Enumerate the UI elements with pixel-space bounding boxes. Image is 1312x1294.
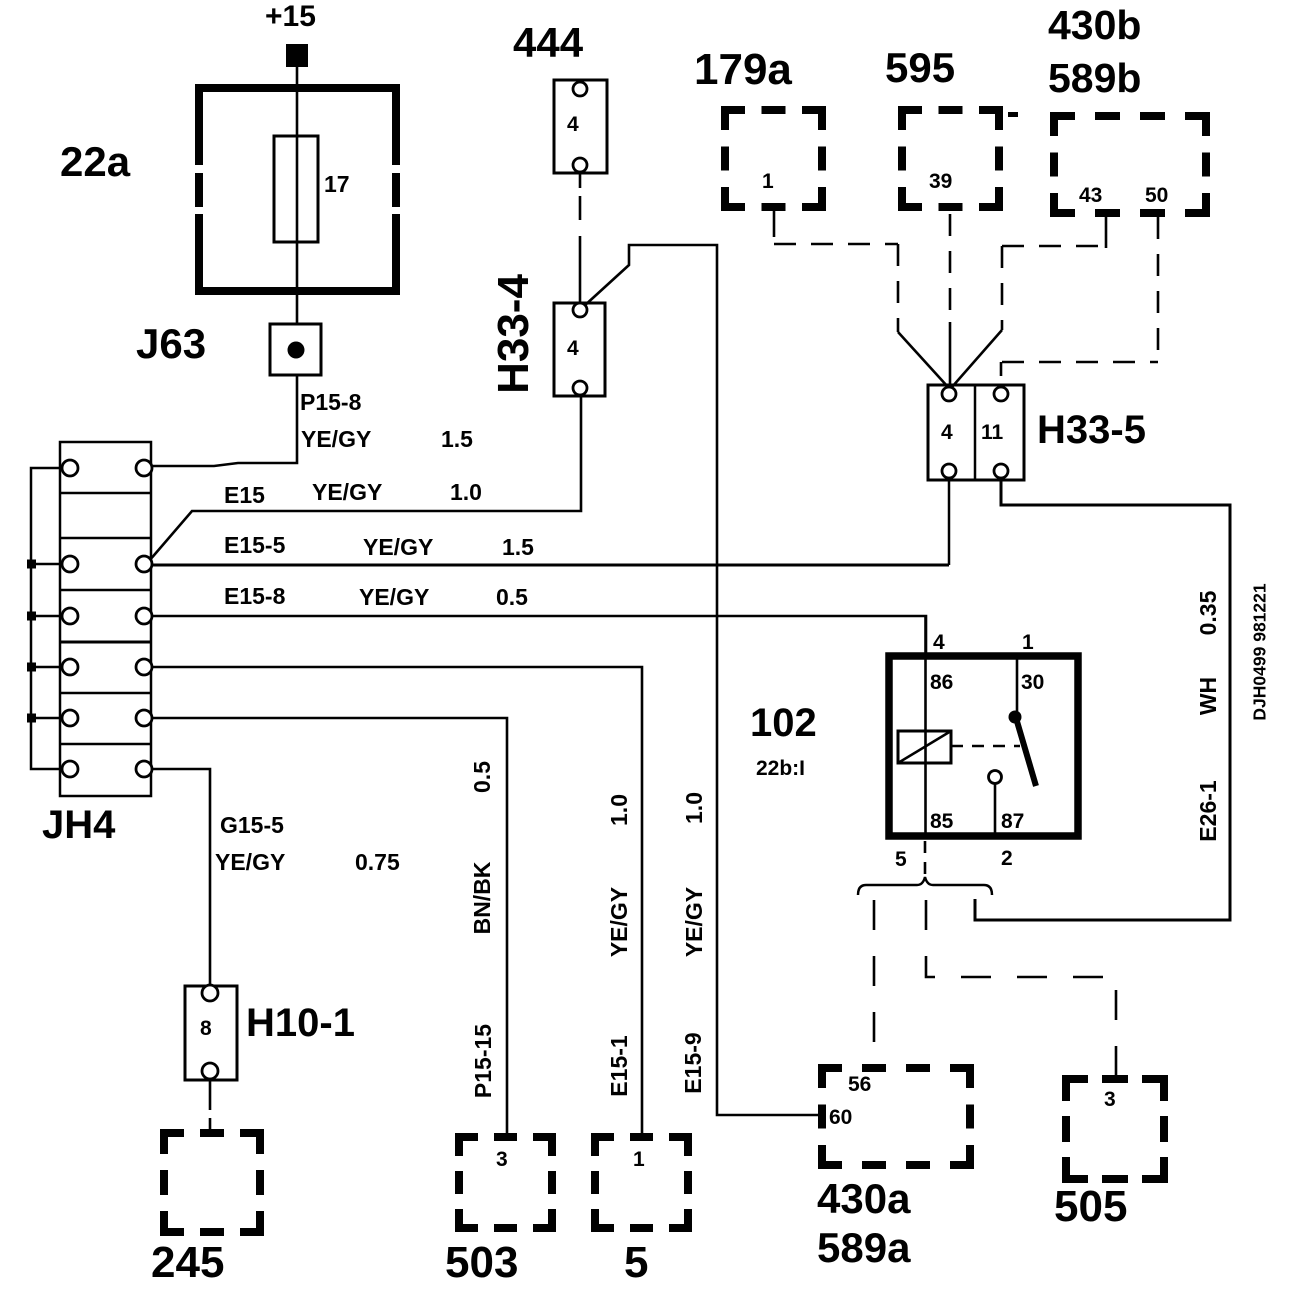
fuse 17	[274, 136, 318, 242]
svg-text:1.5: 1.5	[441, 426, 473, 452]
svg-text:1: 1	[633, 1148, 645, 1171]
svg-text:H33-5: H33-5	[1037, 408, 1146, 452]
box 179a	[721, 106, 826, 211]
svg-text:YE/GY: YE/GY	[363, 534, 433, 560]
power feed +15 square	[286, 44, 308, 67]
box 505	[1062, 1075, 1168, 1183]
dashed wire 444 to H33-4	[579, 173, 582, 188]
svg-text:E15-8: E15-8	[224, 583, 286, 609]
relay switch pivot dot	[1009, 711, 1022, 724]
svg-text:WH: WH	[1195, 677, 1221, 715]
wire dash into 245	[209, 1118, 212, 1133]
svg-text:4: 4	[941, 421, 953, 444]
svg-text:1.5: 1.5	[502, 534, 534, 560]
wire E26-1 from H33-5 pin 11 to relay area	[975, 478, 1230, 920]
svg-text:589b: 589b	[1048, 55, 1141, 101]
svg-text:50: 50	[1145, 184, 1168, 207]
svg-text:30: 30	[1021, 671, 1044, 694]
svg-text:8: 8	[200, 1017, 212, 1040]
svg-text:H33-4: H33-4	[489, 274, 538, 394]
svg-text:17: 17	[324, 171, 350, 197]
svg-text:43: 43	[1079, 184, 1102, 207]
svg-text:+15: +15	[265, 0, 316, 33]
connector H33-4	[554, 303, 605, 396]
JH4 bus stub row6	[31, 717, 62, 720]
dashed wire relay pin 5 down	[924, 841, 927, 874]
wire P15-15 from JH4 row6 to box 503	[152, 718, 507, 1133]
svg-text:430b: 430b	[1048, 2, 1141, 48]
svg-text:1.0: 1.0	[450, 479, 482, 505]
wire stub from 179a pin 1	[773, 211, 776, 237]
svg-text:3: 3	[496, 1148, 508, 1171]
svg-text:430a: 430a	[817, 1175, 911, 1222]
svg-text:60: 60	[829, 1106, 852, 1129]
dashed wire brace to 430a pin 56	[873, 900, 876, 1064]
svg-text:22b:I: 22b:I	[756, 757, 805, 780]
svg-text:YE/GY: YE/GY	[606, 887, 632, 957]
svg-text:0.35: 0.35	[1195, 590, 1221, 635]
svg-text:1: 1	[762, 170, 774, 193]
svg-text:87: 87	[1001, 810, 1024, 833]
dashed wire from 430b pin 50 (vertical)	[1157, 217, 1160, 362]
junction dot row6	[27, 714, 36, 723]
diagonal wire into H33-5 pin 4 (left)	[898, 332, 948, 387]
svg-text:YE/GY: YE/GY	[215, 849, 285, 875]
wire 444 to H33-4 solid part	[579, 250, 582, 303]
svg-text:G15-5: G15-5	[220, 812, 284, 838]
svg-text:5: 5	[895, 848, 907, 871]
svg-text:E15-5: E15-5	[224, 532, 286, 558]
wire E15-1 from JH4 row5 to box 5	[152, 667, 642, 1133]
dashed wire brace to 505 pin 3	[926, 900, 1116, 1075]
connector 444	[554, 80, 607, 173]
relay pin 1/30 wire	[1016, 656, 1019, 712]
svg-text:E26-1: E26-1	[1195, 780, 1221, 842]
box 245 (dashed destination box)	[160, 1129, 264, 1236]
junction dot row4	[27, 612, 36, 621]
wire E15-8 from JH4 row4 to relay 102 pin 4	[152, 616, 926, 653]
svg-text:YE/GY: YE/GY	[301, 426, 371, 452]
JH4 terminals right	[136, 460, 152, 777]
box 595	[898, 106, 1003, 211]
wire E15-5 from JH4 row3 to H33-5 pin 4	[152, 564, 949, 567]
wire H10-1 to box 245	[209, 1080, 212, 1110]
dashed wire 50 leftward	[1002, 361, 1158, 364]
svg-text:DJH0499 981221: DJH0499 981221	[1250, 583, 1270, 720]
svg-text:5: 5	[624, 1238, 648, 1287]
svg-text:0.75: 0.75	[355, 849, 400, 875]
box 503	[455, 1133, 556, 1232]
svg-text:39: 39	[929, 170, 952, 193]
box 430a/589a	[818, 1064, 974, 1169]
dashed wire 43 leftward	[1002, 245, 1106, 248]
relay actuation dashed link	[951, 745, 1020, 748]
connector block JH4	[60, 442, 151, 796]
junction dot row5	[27, 663, 36, 672]
diagonal wire into H33-5 pin 4 (right)	[952, 330, 1002, 387]
relay 102 box	[889, 656, 1078, 836]
relay pin 87 wire	[994, 783, 997, 836]
svg-text:4: 4	[567, 113, 579, 136]
wire P15-8 from J63 to JH4 row1	[152, 375, 297, 466]
svg-text:J63: J63	[136, 320, 206, 367]
svg-text:2: 2	[1001, 847, 1013, 870]
svg-text:YE/GY: YE/GY	[359, 584, 429, 610]
svg-text:1: 1	[1022, 631, 1034, 654]
svg-text:1.0: 1.0	[606, 794, 632, 826]
splice J63	[270, 324, 321, 375]
dashed wire 179a to H33-5 (horizontal)	[774, 243, 898, 246]
dashed wire 43 downward	[1001, 246, 1004, 330]
dashed wire into H33-5 pin 11	[1000, 362, 1003, 387]
svg-text:102: 102	[750, 701, 817, 745]
svg-text:22a: 22a	[60, 138, 131, 185]
svg-text:595: 595	[885, 44, 955, 91]
svg-text:1.0: 1.0	[681, 792, 707, 824]
svg-text:11: 11	[981, 421, 1004, 444]
svg-text:4: 4	[567, 337, 579, 360]
svg-text:85: 85	[930, 810, 954, 833]
stray mark	[1008, 112, 1018, 117]
svg-text:179a: 179a	[694, 45, 792, 94]
svg-text:YE/GY: YE/GY	[681, 887, 707, 957]
svg-text:86: 86	[930, 671, 953, 694]
connector H33-5	[928, 385, 1024, 480]
svg-text:503: 503	[445, 1238, 518, 1287]
wire E15-9 from H33-4 pin 4 to box 430a pin 60	[583, 245, 820, 1115]
wire stub from 430b pin 43	[1105, 217, 1108, 248]
JH4 bus stub row5	[31, 666, 62, 669]
wire +15 to fuse 17 through box 22a	[296, 67, 299, 324]
svg-text:444: 444	[513, 19, 584, 66]
fuse holder box 22a (dashed component frame)	[195, 84, 400, 295]
svg-text:BN/BK: BN/BK	[469, 861, 495, 934]
relay switch arm	[1016, 718, 1036, 786]
connector H10-1	[185, 985, 237, 1080]
relay coil wire pin 4/86 to 85/5	[924, 616, 927, 839]
svg-text:589a: 589a	[817, 1224, 911, 1271]
svg-text:YE/GY: YE/GY	[312, 479, 382, 505]
svg-text:P15-15: P15-15	[470, 1024, 496, 1098]
wire E15 from H33-4 to JH4 row3	[149, 396, 581, 561]
svg-text:3: 3	[1104, 1088, 1116, 1111]
svg-text:E15-1: E15-1	[606, 1035, 632, 1097]
svg-text:E15-9: E15-9	[680, 1032, 706, 1093]
wire G15-5 from JH4 row7 to H10-1	[152, 769, 210, 986]
solid wire into H33-5 pin 4 (center)	[949, 322, 952, 388]
dashed wire 179a to H33-5 (vertical)	[897, 244, 900, 332]
svg-text:4: 4	[933, 631, 945, 654]
svg-text:0.5: 0.5	[496, 584, 528, 610]
brace under relay	[858, 877, 992, 895]
JH4 left bus wire	[31, 468, 62, 769]
svg-text:505: 505	[1054, 1182, 1127, 1231]
box 5	[591, 1133, 692, 1232]
relay pin 87 contact circle	[989, 771, 1002, 784]
svg-text:E15: E15	[224, 482, 265, 508]
JH4 bus stub row4	[31, 615, 62, 618]
svg-text:P15-8: P15-8	[300, 389, 362, 415]
box 430b/589b	[1050, 112, 1210, 217]
svg-text:H10-1: H10-1	[246, 1001, 355, 1045]
svg-text:245: 245	[151, 1238, 224, 1287]
svg-text:56: 56	[848, 1073, 871, 1096]
JH4 terminals left	[62, 460, 78, 777]
JH4 bus stub row3	[31, 563, 62, 566]
relay coil	[898, 731, 951, 763]
svg-text:0.5: 0.5	[469, 761, 495, 793]
junction dot row3	[27, 560, 36, 569]
svg-text:JH4: JH4	[42, 803, 116, 847]
dashed wire from 595 pin 39	[949, 214, 952, 322]
